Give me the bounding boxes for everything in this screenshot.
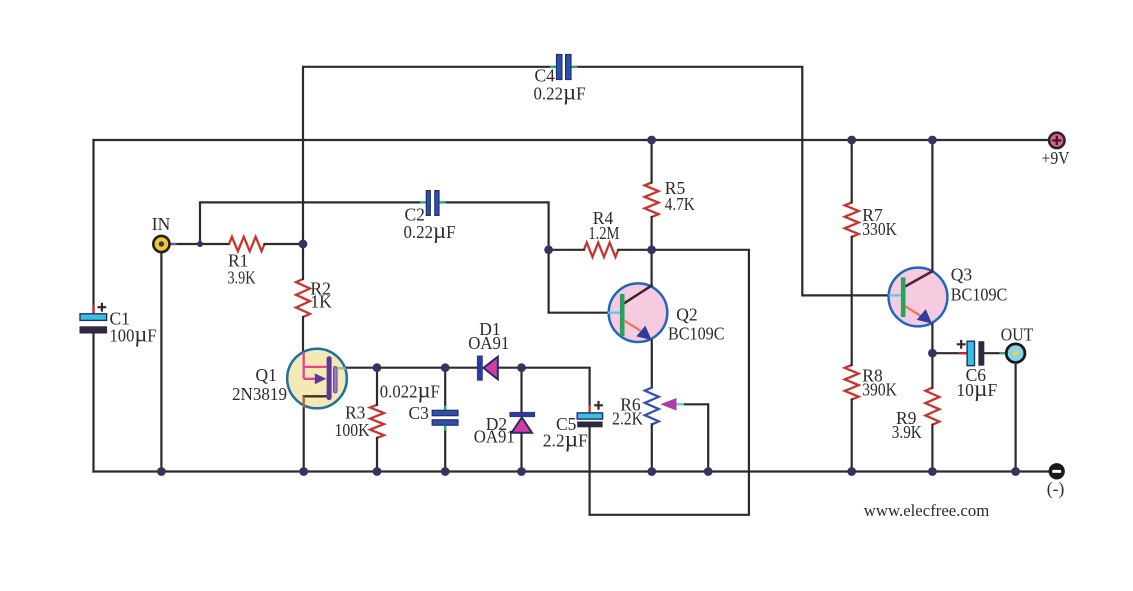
svg-text:www.elecfree.com: www.elecfree.com (864, 501, 990, 520)
wire: C6 to OUT jack (984, 352, 1006, 354)
svg-text:0.22µF: 0.22µF (404, 218, 456, 244)
wire: R7/R8 divider string from +9V rail to ground rail (851, 140, 853, 202)
wire: base node to R4 to collector node (549, 249, 584, 251)
Q1 second channel bar (333, 366, 337, 393)
wire: +9V top supply rail (94, 139, 1049, 141)
Q1 source dark line (303, 395, 327, 397)
wire: C2 branch from input node up and right to C2 (200, 202, 421, 244)
node junction at (377,471.5) (373, 467, 382, 476)
svg-text:1.2M: 1.2M (588, 223, 619, 243)
wire: gate node down through R2 to Q1 (302, 244, 304, 279)
connector OUT (output jack) (1001, 325, 1034, 363)
wire: OUT jack down to ground rail (1014, 363, 1016, 472)
node junction at (651.6,140) (647, 136, 656, 145)
node junction at (200,244) (197, 241, 203, 247)
node junction at (303.7,471.5) (299, 467, 308, 476)
wire: C4 feedback loop left side, from gate node up to C4 (303, 67, 551, 244)
terminal (-) battery negative (1047, 464, 1065, 499)
diode D2 OA91 (474, 412, 535, 447)
svg-text:1K: 1K (310, 292, 332, 312)
resistor R7 330K (845, 202, 897, 239)
resistor R8 390K (845, 365, 897, 400)
svg-text:Q1: Q1 (256, 365, 277, 385)
Q1 source orange segment (303, 396, 305, 408)
Q3 base cyan tick (889, 294, 901, 296)
svg-text:(-): (-) (1047, 479, 1065, 499)
svg-text:Q2: Q2 (676, 305, 697, 325)
wire: output node down through R9 to ground rail (931, 353, 933, 388)
wire: R1 to gate node (265, 243, 304, 245)
wire: IN jack to gate node junction and on to R1 (170, 243, 229, 245)
wire: +9V rail down through R5 to Q2 collector node (650, 140, 652, 183)
node junction at (445.2,367.7) (441, 363, 450, 372)
resistor R2 1K (296, 279, 332, 317)
node junction at (932.4,140) (928, 136, 937, 145)
svg-text:10µF: 10µF (956, 376, 997, 402)
wire: output node to C6 (932, 352, 966, 354)
wire: wiper to ground rail (685, 404, 708, 471)
diode D1 OA91 (468, 319, 509, 381)
node junction at (651.8,471.5) (647, 467, 656, 476)
Q2 labels (668, 305, 725, 344)
transistor Q3 BC109C body (889, 268, 948, 327)
svg-text:2.2µF: 2.2µF (543, 427, 588, 453)
svg-text:330K: 330K (862, 219, 897, 239)
node junction at (303,244) (299, 240, 308, 249)
svg-text:BC109C: BC109C (668, 324, 725, 344)
node junction at (521.5,367.7) (517, 363, 526, 372)
green tick at OUT jack (999, 352, 1006, 354)
svg-text:4.7K: 4.7K (665, 194, 695, 214)
svg-text:100K: 100K (335, 420, 370, 440)
svg-text:C3: C3 (409, 403, 430, 423)
node junction at (932.4,471.5) (928, 467, 937, 476)
Q3 emitter diagonal (905, 306, 921, 316)
node junction at (708.2,471.5) (704, 467, 713, 476)
svg-text:BC109C: BC109C (951, 285, 1008, 305)
node junction at (377,367.7) (373, 363, 382, 372)
capacitor C4 0.22uF (534, 55, 586, 106)
wire: drain node down to R3 and on to ground (376, 368, 378, 405)
capacitor C5 2.2uF electrolytic (543, 401, 603, 453)
node junction at (851.7,140) (847, 136, 856, 145)
Q1 labels (232, 365, 287, 404)
Q1 gate arrowhead (315, 373, 327, 384)
wire: bottom ground rail (94, 470, 1049, 472)
svg-text:390K: 390K (862, 380, 897, 400)
Q1 channel bar (327, 356, 332, 400)
capacitor C6 10uF electrolytic (956, 340, 997, 402)
transistor Q1 2N3819 JFET body (287, 349, 347, 409)
Q3 labels (951, 264, 1008, 304)
wire: C4 feedback loop right side, from C4 to Q3 base line (577, 67, 889, 296)
red tick at C6 positive lead (958, 352, 966, 354)
Q3 base bar (901, 277, 906, 317)
svg-text:3.9K: 3.9K (228, 268, 256, 288)
wire: Q2 emitter down to R6 (651, 341, 653, 388)
svg-text:OA91: OA91 (468, 333, 509, 353)
node junction at (851.7,471.5) (847, 467, 856, 476)
resistor R5 4.7K (645, 178, 696, 217)
R6 wiper arrow (660, 398, 676, 411)
Q2 base bar (620, 294, 625, 336)
resistor R4 1.2M (584, 208, 620, 257)
wire: from IN jack down to ground rail (160, 252, 162, 472)
resistor R9 3.9K (892, 388, 940, 443)
node junction at (521.5,471.5) (517, 467, 526, 476)
svg-text:0.22µF: 0.22µF (534, 79, 586, 105)
node junction at (932.4,353.2) (928, 349, 937, 358)
Q2 collector diagonal (623, 285, 652, 304)
transistor Q2 BC109C body (609, 283, 668, 342)
wire: Q1 drain line to the right (to R3, C3, D1, C5) (347, 367, 478, 369)
wire: Q3 emitter down to output node (931, 324, 933, 353)
svg-text:IN: IN (152, 214, 171, 234)
terminal +9V battery positive (1042, 133, 1070, 168)
wire: Q2 collector lead (650, 250, 652, 286)
node junction at (548.6,249.8) (544, 245, 553, 254)
Q1 drain green tick (337, 367, 347, 369)
capacitor C3 0.022uF (380, 378, 458, 433)
wire: left rail from +9V rail down to ground rail (interrupted by C1) (92, 140, 94, 313)
R6 wiper cyan tick (677, 403, 686, 405)
Q2 base cyan tick (608, 312, 620, 314)
Q2 emitter diagonal (624, 320, 641, 330)
Q2 emitter arrowhead (636, 326, 651, 340)
svg-text:+9V: +9V (1042, 148, 1070, 168)
svg-text:OUT: OUT (1001, 325, 1034, 345)
Q3 emitter arrowhead (917, 309, 932, 323)
wire: Q3 collector up to +9V rail (931, 140, 933, 271)
wire: R6 bottom to ground rail (651, 424, 653, 471)
wire: D2 branch (520, 368, 522, 412)
wire: purple tick at IN jack terminal (168, 243, 176, 245)
svg-text:100µF: 100µF (110, 322, 157, 348)
resistor R1 3.9K (228, 237, 265, 288)
resistor R3 100K (335, 402, 385, 440)
svg-text:Q3: Q3 (951, 264, 973, 284)
Q3 collector diagonal (905, 271, 933, 286)
svg-text:OA91: OA91 (474, 427, 515, 447)
wire: from C2 right to corner, down, and into Q2 base (446, 202, 609, 312)
potentiometer R6 2.2K (blue zigzag) (612, 388, 659, 429)
svg-text:3.9K: 3.9K (892, 422, 922, 442)
wire: C3 branch (444, 368, 446, 405)
svg-text:2.2K: 2.2K (612, 409, 643, 429)
wire: Q1 source down to ground rail (303, 409, 305, 472)
capacitor C2 0.22uF (404, 191, 456, 244)
node junction at (161.4,471.5) (157, 467, 166, 476)
svg-text:2N3819: 2N3819 (232, 384, 287, 404)
capacitor C1 100uF electrolytic on left rail (80, 303, 157, 348)
node junction at (445.2,471.5) (441, 467, 450, 476)
node junction at (651.6,249.8) (647, 245, 656, 254)
Q1 internal drain/gate pink lines (303, 352, 327, 379)
svg-text:0.022µF: 0.022µF (380, 378, 440, 404)
wire: C5 bottom feedback loop to Q2 collector node (590, 250, 749, 515)
connector IN (input jack) (152, 214, 171, 252)
node junction at (1015.6,471.5) (1011, 467, 1020, 476)
